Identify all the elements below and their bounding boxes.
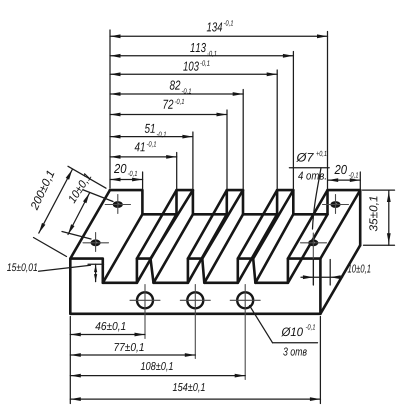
centerline hole A2 vertical [117,195,119,214]
label diam10 shelf line [273,342,318,344]
bottom-right receding edge [320,245,360,313]
centerline hole A1 horizontal [83,242,109,244]
dim text 46±0,1 [95,322,125,332]
dim 20 right extension line [359,172,361,190]
dim 103 line [110,73,277,75]
rib 3 top-right receding edge [253,190,293,259]
dim 51 right extension line [192,132,194,190]
centerline hole B3 vertical [244,285,246,380]
centerline hole A3 vertical extended to dim 10 [312,233,314,285]
hole B2 (diam 10) on front face [187,292,203,308]
dim 41 line [110,156,177,158]
slot 1 bottom left receding edge [103,214,143,282]
label diam10 leader line from hole B3 [250,306,273,343]
tolerance -0,1 of dim 51 [157,132,166,138]
arrowheads dim 41 [110,155,121,159]
arrowheads dim 154 [70,397,81,401]
hole A2 (diam 7) on platform top [113,202,122,208]
centerline hole A4 vertical [335,195,337,214]
dim 20 top line [110,179,143,181]
label text 4 otv. (4 holes) [298,172,326,180]
rib 1 top-right receding edge [151,190,193,259]
dim 15 leader line [39,265,91,271]
common left extension line for top dims [109,30,111,188]
centerline hole A4 horizontal [323,204,349,206]
dim 82 right extension line [242,90,244,190]
arrowheads dim 20 right [328,178,339,182]
dim 82 line [110,93,243,95]
centerline hole B1 vertical [144,285,146,339]
hole A1 (diam 7) on platform top [91,240,100,246]
arrowheads dim 200 [39,223,46,233]
tolerance +0,1 of diam 7 [316,151,326,157]
dim text 108±0,1 [141,362,173,372]
tolerance -0,1 of dim 20 right [349,172,358,178]
dim text 103 [183,62,199,71]
right platform top-left receding edge [288,190,328,259]
dim text 10±0,1 left (rotated) [67,173,92,205]
dim 51 line [110,136,193,138]
dim text 113 [190,43,206,52]
dim 113 right extension line [292,52,294,190]
arrowheads dim 108 [70,374,81,378]
hole B3 (diam 10) on front face [237,292,253,308]
dim text 10±0,1 right [348,264,371,274]
dim 10 right left extension line [312,260,314,286]
dim 15 line (slot depth) [95,264,97,281]
arrowheads dim 10 right [303,275,314,279]
tolerance -0,1 of diam 10 [306,324,315,330]
rib 1 top-left receding edge [137,190,177,259]
tolerance -0,1 of dim 72 [175,99,184,105]
arrowheads dim 15 [94,265,97,273]
hole A4 (diam 7) on platform top [331,202,340,208]
dim 41 right extension line [176,153,178,190]
dim text 15±0,01 [7,263,37,272]
dim text 51 [145,124,155,133]
front face comb-profile outline of slotted block [70,259,320,314]
dim 10 right line [301,276,343,278]
rib 2 right wall bottom receding edge [204,214,243,282]
slot 1 bottom right receding edge [137,214,177,282]
dim 154 line [70,398,320,400]
dim 72 line [110,114,227,116]
dim 35 upper extension line [363,189,395,191]
dim text 72 [164,100,174,109]
dim 35 line (height) [388,190,390,245]
tolerance -0,1 of dim 113 [207,51,216,57]
hole B1 (diam 10) on front face [137,292,153,308]
arrowheads dim 134 [110,34,121,38]
dim text 154±0,1 [173,383,205,393]
arrowheads dim 46 [70,333,81,337]
dim 113 line [110,55,293,57]
dim text 134 [207,22,222,31]
dim 77 line [70,354,195,356]
label diam7 leader curve to hole A3 [313,168,322,229]
centerline hole B2 vertical [194,285,196,359]
dim 20 right line [328,179,361,181]
dim 15 upper tick [88,263,104,265]
rib 2 top-left receding edge [188,190,227,259]
label diam7 shelf line [289,167,329,169]
rib 2 top-right receding edge [202,190,243,259]
label text 3 otv (3 holes) [283,347,307,355]
hole A3 (diam 7) on platform top [309,240,318,246]
back top silhouette outline (ribs and slots at rear face) [110,190,360,245]
dim 72 right extension line [226,110,228,190]
dim text 41 [135,142,145,151]
dim 10 right right extension line [329,260,331,286]
tolerance -0,1 of dim 103 [200,60,209,66]
arrowheads dim 51 [110,135,121,139]
centerline hole A3 horizontal [301,242,327,244]
arrowheads dim 113 [110,54,121,58]
label text diam 7 [296,153,314,162]
arrowheads dim 103 [110,72,121,76]
dim 200 lower extension line [34,238,67,257]
dim 103 right extension line [276,70,278,190]
bottom left extension line [69,317,71,404]
tolerance -0,1 of dim 134 [224,20,233,26]
arrowheads dim 20 top [110,178,121,182]
dim 200 upper extension line [68,166,106,188]
centerline hole B3 horizontal [230,299,260,301]
centerline hole A1 vertical [95,233,97,252]
rib 3 top-left receding edge [238,190,277,259]
dim 46 line [70,334,145,336]
dim 10 left lower extension line [62,232,91,240]
bottom right extension line (154) [319,317,321,404]
arrowheads dim 10 left [68,224,75,234]
centerline hole B1 horizontal [130,299,160,301]
centerline hole A2 horizontal [105,204,130,206]
tolerance -0,1 of dim 82 [182,88,191,94]
dim 10 left upper extension line [84,190,114,202]
arrowheads dim 72 [110,113,121,117]
dim 35 lower extension line [364,244,395,246]
dim 20 top right extension line [142,172,144,189]
dim text 82 [170,81,181,90]
dim text 20 top [114,164,126,173]
arrowheads dim 77 [70,353,81,357]
dim text 77±0,1 [115,343,144,353]
tolerance -0,1 of dim 20 top [128,171,137,177]
dim 134 line [110,35,328,37]
arrowheads dim 35 [387,192,391,203]
slot 4 bottom right receding edge [288,214,328,282]
left platform top-left receding edge [70,190,110,259]
dim 10 left line (hole spacing along depth) [68,193,90,235]
dim text 35±0,1 (rotated) [369,196,379,231]
slot 2 bottom right receding edge [188,214,227,282]
tolerance -0,1 of dim 41 [147,141,156,147]
centerline hole B2 horizontal [180,299,210,301]
right platform top-right receding edge [320,190,360,259]
slot 3 bottom right receding edge [238,214,277,282]
arrowheads dim 82 [110,92,121,96]
dim 108 line [70,375,245,377]
dim 200 line (depth) [39,170,73,234]
rib 3 right wall bottom receding edge [255,214,293,282]
dim text 200±0,1 (rotated) [30,170,56,211]
label text diam 10 [281,327,303,336]
dim 134 right extension line [327,32,329,190]
dim text 20 right [334,165,346,174]
rib 1 right wall bottom receding edge [154,214,193,282]
